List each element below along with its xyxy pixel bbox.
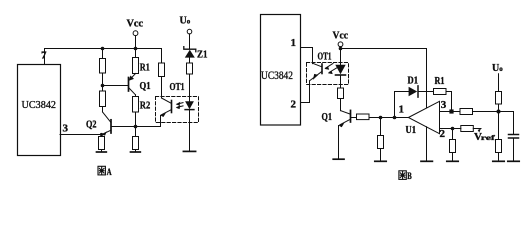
node junction (101.5,134.5)	[100, 133, 103, 136]
terminal Vcc circle (A)	[133, 31, 138, 36]
wire top rail B	[341, 48, 427, 50]
ground (B, x380)	[375, 160, 386, 162]
resistor Rb6 (to gnd)	[450, 140, 456, 153]
wire top rail drop (col x161)	[161, 49, 163, 64]
terminal Vcc circle (B)	[338, 42, 343, 47]
zener Z1 triangle	[185, 50, 195, 58]
wire to capacitor	[513, 112, 515, 135]
svg-text:Q2: Q2	[86, 119, 97, 131]
phototransistor emitter (B)	[310, 71, 323, 81]
node junction (380,117)	[379, 116, 383, 120]
wire pin1	[301, 48, 313, 64]
svg-text:D1: D1	[408, 75, 419, 87]
wire	[135, 127, 137, 137]
wire op-amp V- to ground	[426, 127, 428, 161]
svg-text:3: 3	[441, 99, 447, 111]
node junction (102,85.5)	[101, 84, 105, 88]
ground (B, Q1)	[333, 158, 344, 160]
label 图B	[399, 171, 406, 180]
phototransistor emitter arrowhead (A)	[160, 113, 166, 117]
svg-text:R1: R1	[435, 75, 445, 87]
resistor Ra4 (base rail to gnd)	[133, 137, 139, 150]
ground (B, x498)	[493, 160, 504, 162]
wire	[498, 74, 500, 92]
svg-text:B: B	[407, 172, 412, 182]
wire	[135, 95, 137, 97]
svg-text:U1: U1	[406, 124, 417, 136]
phototransistor collector (A)	[162, 98, 172, 103]
node junction (135.5,126.5)	[134, 125, 138, 129]
resistor Ra3 (Q2 emitter to gnd)	[99, 137, 105, 150]
wire	[498, 153, 500, 161]
optocoupler OT1 (B) dashed box	[307, 63, 349, 85]
svg-text:U: U	[180, 16, 187, 27]
wire pin3	[440, 111, 461, 113]
svg-text:UC3842: UC3842	[22, 99, 57, 111]
node junction (135,48)	[134, 47, 138, 51]
node square junction (451,111.5)	[449, 109, 453, 113]
node junction (340,48)	[339, 47, 343, 51]
wire R2 down to base rail	[135, 112, 137, 127]
svg-text:Z1: Z1	[197, 49, 208, 61]
capacitor C1 bottom plate	[509, 137, 519, 139]
wire	[452, 129, 454, 140]
transistor Q1 collector	[129, 88, 136, 95]
IC U-B UC3842 box	[261, 15, 301, 126]
ground (A right)	[183, 150, 195, 152]
wire	[340, 47, 342, 49]
LED cathode bar (B)	[336, 74, 346, 76]
LED cathode bar (A)	[185, 109, 194, 111]
resistor Ra1 (upper, col x102)	[100, 59, 106, 74]
wire top rail A	[45, 48, 162, 50]
wire	[452, 153, 454, 161]
resistor Rb5 (pin2 series)	[461, 126, 474, 132]
transistor Q1 emitter (B)	[340, 119, 351, 125]
wire emitter to ground	[338, 126, 340, 159]
resistor Rb2 (base series)	[357, 114, 370, 120]
wire	[498, 104, 500, 140]
transistor Q1 emitter arrowhead (B)	[339, 123, 345, 127]
optocoupler OT1 (A) dashed box	[156, 97, 199, 123]
wire	[473, 111, 514, 113]
svg-text:UC3842: UC3842	[261, 68, 293, 82]
wire	[513, 139, 515, 161]
capacitor C1 top plate	[509, 134, 519, 136]
wire	[340, 99, 342, 111]
svg-text:R1: R1	[140, 62, 150, 74]
wire	[161, 77, 163, 99]
wire	[101, 150, 103, 152]
transistor Q1 emitter (PNP, arrow into bar)	[132, 74, 136, 78]
svg-text:o: o	[187, 18, 191, 26]
wire	[135, 150, 137, 152]
resistor Rb1 (LED series)	[338, 88, 344, 99]
wire LED to ground	[189, 110, 191, 151]
resistor R1 (A)	[133, 58, 139, 74]
wire	[446, 92, 452, 110]
svg-text:Vcc: Vcc	[127, 19, 144, 30]
svg-text:2: 2	[440, 128, 446, 140]
wire LED to resistor	[340, 76, 342, 88]
LED anode triangle (B)	[335, 65, 345, 74]
transistor Q1 base bar (A)	[128, 78, 130, 92]
wire pin3	[60, 134, 102, 136]
transistor Q2 emitter arrowhead	[102, 131, 108, 135]
svg-text:o: o	[499, 65, 503, 73]
wire Q2 base to optocoupler	[111, 126, 161, 128]
svg-text:U: U	[492, 63, 499, 74]
svg-text:R2: R2	[140, 100, 151, 112]
transistor Q1 collector (B)	[341, 111, 351, 115]
wire	[369, 117, 408, 119]
svg-text:1: 1	[291, 37, 297, 49]
node junction (394,117)	[393, 116, 397, 120]
svg-text:Q1: Q1	[322, 111, 333, 123]
transistor Q2 collector	[103, 112, 112, 123]
transistor Q2 base bar	[110, 120, 112, 133]
diode D1 triangle	[409, 87, 418, 97]
svg-text:3: 3	[63, 123, 69, 135]
phototransistor bar (B)	[321, 64, 323, 74]
node junction (498,111.5)	[497, 110, 501, 114]
ground (B, x452)	[447, 160, 458, 162]
zener Z1 cathode bar with hooks	[184, 47, 196, 52]
wire	[101, 135, 103, 137]
wire	[102, 73, 104, 91]
light arrow 2 (A)	[177, 106, 183, 108]
LED wire into box (A)	[189, 74, 191, 101]
svg-text:A: A	[107, 168, 112, 178]
svg-text:OT1: OT1	[170, 81, 185, 93]
phototransistor emitter (A)	[161, 110, 171, 115]
light arrow 1 (B)	[326, 64, 334, 69]
label 图A	[98, 166, 105, 175]
wire pin7 vertical	[44, 49, 46, 65]
svg-text:Vcc: Vcc	[333, 31, 349, 42]
svg-text:2: 2	[291, 99, 297, 111]
resistor R1 (B)	[434, 89, 447, 95]
ground (A mid)	[131, 151, 141, 153]
transistor Q1 bar (B)	[350, 110, 352, 122]
light arrow 2 (B)	[329, 67, 339, 73]
wire	[189, 57, 191, 63]
phototransistor collector (B)	[313, 63, 323, 67]
transistor Q2 emitter	[103, 130, 111, 134]
resistor Rb8 (Uo lower)	[496, 140, 502, 153]
phototransistor emitter arrowhead (B)	[313, 74, 318, 80]
resistor Rb3 (to gnd)	[378, 136, 384, 149]
wire	[418, 91, 434, 93]
ground (B, x426)	[421, 160, 432, 162]
wire op-amp V+ drop	[426, 49, 428, 109]
resistor Ra6 (below Z1)	[187, 63, 193, 74]
node junction (102,48)	[101, 47, 105, 51]
light arrow 1 (A)	[177, 103, 183, 105]
wire	[189, 34, 191, 49]
svg-text:1: 1	[399, 104, 405, 116]
LED anode triangle (A)	[185, 101, 194, 109]
wire pin2	[301, 81, 310, 103]
wire feedback up	[395, 92, 409, 118]
ground (A left)	[97, 151, 107, 153]
wire	[102, 107, 104, 113]
transistor Q1 base wire	[103, 85, 129, 87]
svg-text:ref: ref	[481, 133, 496, 142]
wire	[135, 49, 137, 58]
op-amp U1 triangle	[408, 101, 439, 133]
wire	[380, 149, 382, 161]
node junction (452,128)	[451, 127, 455, 131]
resistor Ra2 (lower, col x102)	[100, 91, 106, 107]
wire emitter down	[160, 115, 162, 126]
svg-text:Q1: Q1	[140, 80, 151, 92]
svg-text:OT1: OT1	[318, 51, 332, 63]
resistor Rb7 (Uo upper)	[496, 92, 502, 105]
diode D1 cathode bar	[417, 86, 419, 97]
Vref arrowhead	[478, 129, 481, 133]
resistor Rb4 (pin3 series)	[460, 109, 473, 115]
terminal Uo circle (A)	[187, 29, 192, 34]
wire Vcc stub	[135, 36, 137, 49]
wire pin2	[440, 128, 461, 130]
wire	[102, 49, 104, 59]
wire	[380, 118, 382, 136]
resistor R2 (A)	[133, 97, 139, 113]
transistor Q1 emitter arrowhead	[129, 76, 134, 81]
IC U-A UC3842 box	[18, 65, 61, 156]
wire	[473, 128, 481, 130]
resistor Ra5 (optocoupler collector pullup)	[159, 63, 165, 77]
phototransistor bar (A)	[171, 101, 173, 113]
LED wire (B)	[340, 49, 342, 65]
ground (B, cap)	[508, 160, 519, 162]
wire Q1 base	[351, 117, 357, 119]
